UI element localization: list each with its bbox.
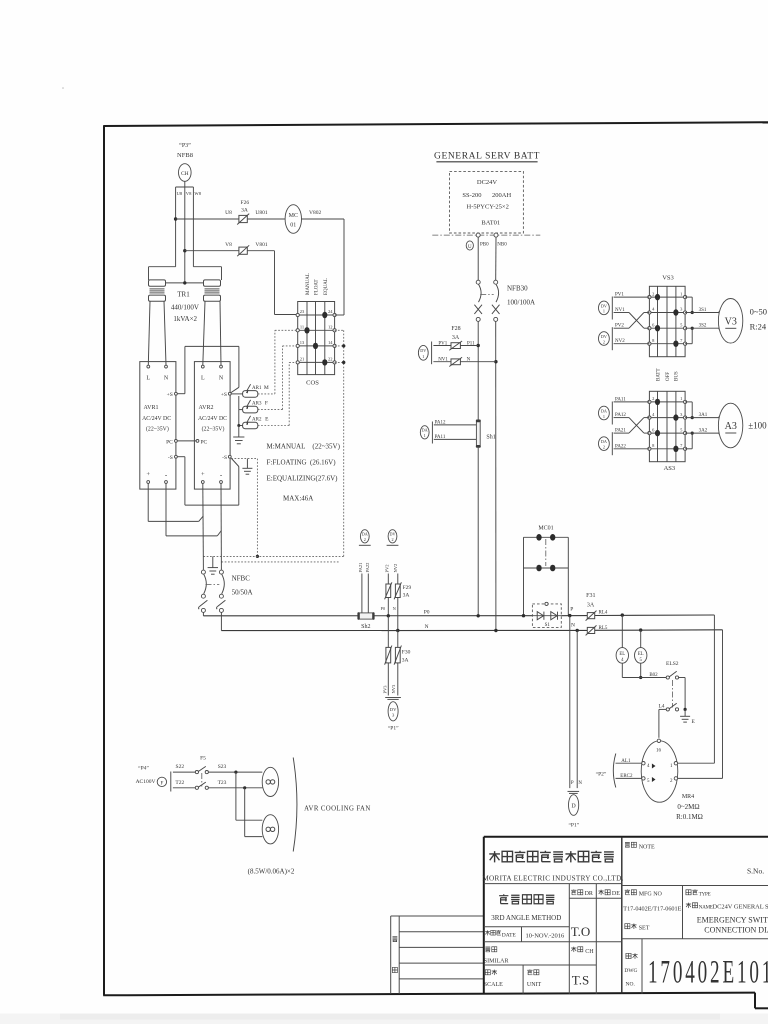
cell TYPE <box>686 889 711 897</box>
svg-text:2: 2 <box>603 444 605 449</box>
battery BAT01 box <box>450 171 524 233</box>
svg-text:2: 2 <box>603 339 605 344</box>
svg-text:DA: DA <box>601 439 607 444</box>
svg-text:ELS2: ELS2 <box>666 661 679 667</box>
svg-text:F26: F26 <box>241 200 250 206</box>
cell DE <box>598 890 620 898</box>
svg-text:L4: L4 <box>658 704 664 710</box>
svg-text:BUS: BUS <box>675 371 680 381</box>
marker D "P1" <box>568 795 579 829</box>
svg-text:N: N <box>219 376 224 382</box>
fuse F28 <box>449 326 462 367</box>
svg-text:DA: DA <box>422 428 428 433</box>
svg-text:DR: DR <box>585 891 593 897</box>
svg-text:RL4: RL4 <box>599 611 608 616</box>
battery bus dash-dot line <box>432 234 540 236</box>
svg-text:NV3: NV3 <box>391 684 396 693</box>
wire V802 to COS 24 <box>302 219 345 315</box>
svg-text:NAME: NAME <box>699 905 713 910</box>
node N junction <box>494 360 497 363</box>
svg-text:U: U <box>468 245 472 250</box>
marker DV2 at F29 <box>387 530 399 546</box>
revision table <box>391 916 484 994</box>
svg-text:“P2”: “P2” <box>596 771 607 778</box>
svg-text:NO.: NO. <box>626 982 636 988</box>
svg-text:+: + <box>146 471 150 478</box>
ground at -S run <box>242 459 252 475</box>
wire PA21 PA22 to Sh2 <box>358 563 370 613</box>
svg-text:AVR2: AVR2 <box>199 405 214 411</box>
wire COS 14 <box>335 344 346 347</box>
wire S22 <box>173 764 196 772</box>
plug link AR2 (E) <box>237 410 269 429</box>
contactor coil MC01 <box>285 205 321 234</box>
svg-text:U801: U801 <box>255 210 267 216</box>
wire PV1 to VS3 <box>614 293 650 298</box>
svg-text:V8: V8 <box>225 242 232 248</box>
megohm meter MR4 <box>641 739 678 802</box>
third angle method kanji <box>499 894 554 904</box>
svg-text:E: E <box>265 417 269 423</box>
wire AS3 out 3A1 <box>685 402 722 419</box>
svg-text:SIMILAR: SIMILAR <box>484 958 509 964</box>
wire P drop to D <box>568 616 583 794</box>
svg-text:H-5PYCY-25×2: H-5PYCY-25×2 <box>467 204 509 211</box>
svg-text:3A: 3A <box>402 658 409 664</box>
wire V8 drop <box>184 187 186 283</box>
wire battery to NFB30 <box>478 237 496 280</box>
label MR4 values <box>676 794 703 821</box>
svg-text:S.No.: S.No. <box>747 866 764 875</box>
svg-text:3A: 3A <box>452 335 460 341</box>
lamp EL4 <box>616 615 628 677</box>
svg-text:Sh2: Sh2 <box>361 624 370 630</box>
svg-text:1kVA×2: 1kVA×2 <box>173 315 197 323</box>
cell DR <box>571 889 593 897</box>
marker DA1 at AS3 <box>599 402 613 425</box>
svg-text:EQUAL: EQUAL <box>324 278 329 295</box>
fuse F29 <box>385 582 412 599</box>
svg-text:±100: ±100 <box>748 421 767 431</box>
svg-text:2: 2 <box>652 291 654 296</box>
wire U8 branch to MC coil <box>176 210 286 219</box>
svg-text:L: L <box>201 376 205 382</box>
svg-text:SCALE: SCALE <box>484 982 503 988</box>
svg-text:M:MANUAL (22~35V): M:MANUAL (22~35V) <box>267 442 341 450</box>
wire branch to fan 2 <box>236 772 263 837</box>
wire W8 drop <box>192 187 194 267</box>
wire MR4 pin1 to P <box>678 615 715 763</box>
svg-text:F29: F29 <box>403 585 412 591</box>
regulator AVR1 <box>140 362 178 490</box>
svg-text:DA: DA <box>362 532 368 537</box>
svg-text:SS-200: SS-200 <box>462 192 481 199</box>
svg-text:170402E101: 170402E101 <box>648 953 768 990</box>
wire PA12 crossing <box>614 413 650 433</box>
svg-text:COS: COS <box>306 380 319 387</box>
svg-text:DATE: DATE <box>502 932 517 938</box>
svg-text:U8: U8 <box>177 191 183 196</box>
label name value <box>697 915 768 934</box>
svg-text:BAT01: BAT01 <box>481 220 500 227</box>
svg-text:50/50A: 50/50A <box>232 589 253 597</box>
svg-text:+S: +S <box>167 392 173 398</box>
cell NOTE <box>625 842 655 850</box>
terminal NB0 <box>494 233 507 247</box>
svg-text:DV: DV <box>389 532 395 537</box>
switch F5 <box>195 756 208 790</box>
svg-text:(22~35V): (22~35V) <box>202 426 225 433</box>
marker DV1 at VS3 <box>599 297 613 320</box>
node U8 junction <box>174 217 177 220</box>
svg-text:F: F <box>161 781 164 786</box>
svg-text:4: 4 <box>652 307 655 312</box>
svg-text:13: 13 <box>300 340 305 345</box>
wire M to COS 11 <box>258 330 298 394</box>
svg-text:AC/24V DC: AC/24V DC <box>142 416 171 422</box>
node N drop tap <box>576 629 579 632</box>
svg-text:4: 4 <box>652 412 655 417</box>
svg-text:M: M <box>264 385 269 391</box>
svg-text:V3: V3 <box>725 317 737 328</box>
svg-text:AC/24V DC: AC/24V DC <box>198 416 227 422</box>
cell UNIT <box>527 969 542 987</box>
svg-text:16: 16 <box>656 749 662 754</box>
wire S23 <box>208 764 262 774</box>
svg-text:DV: DV <box>601 334 607 339</box>
svg-text:N: N <box>164 376 169 382</box>
contactor contacts MC01 <box>522 526 569 618</box>
svg-text:-S: -S <box>168 455 173 461</box>
wire PC link <box>177 440 196 442</box>
svg-text:MFG NO: MFG NO <box>639 891 663 897</box>
svg-text:V801: V801 <box>255 242 267 248</box>
wire P0 bus <box>203 610 714 616</box>
svg-text:5: 5 <box>680 322 683 327</box>
svg-text:S22: S22 <box>176 764 185 770</box>
cell SCALE <box>484 970 503 988</box>
node V8 junction <box>183 249 186 252</box>
wire COS 22 <box>335 361 346 364</box>
svg-text:“P4”: “P4” <box>138 765 149 772</box>
wire F29 to buses <box>381 598 400 633</box>
shunt Sh2 <box>357 612 374 630</box>
svg-text:F5: F5 <box>200 756 206 762</box>
wire P after S1 <box>568 607 573 618</box>
svg-text:23: 23 <box>300 309 305 314</box>
switch ELS2 <box>666 661 685 709</box>
svg-text:PV2: PV2 <box>385 564 390 572</box>
svg-text:DV: DV <box>420 348 426 353</box>
svg-text:“P1”: “P1” <box>568 822 579 829</box>
svg-text:PC: PC <box>201 439 208 445</box>
svg-text:F30: F30 <box>402 650 411 656</box>
svg-text:2: 2 <box>652 396 654 401</box>
wire COS 12 common dashed <box>335 330 344 556</box>
note text charge modes <box>267 442 341 502</box>
svg-text:21: 21 <box>300 356 305 361</box>
svg-text:N: N <box>425 624 429 630</box>
svg-text:MR4: MR4 <box>682 794 694 800</box>
svg-text:CH: CH <box>181 171 189 177</box>
svg-text:T22: T22 <box>175 780 184 786</box>
svg-text:1: 1 <box>422 354 424 359</box>
wire TR1 secondary to AVR1 <box>148 301 166 365</box>
svg-text:N: N <box>578 781 582 786</box>
svg-text:AVR1: AVR1 <box>144 405 159 411</box>
svg-text:3: 3 <box>680 412 683 417</box>
svg-text:DC24V GENERAL SERV: DC24V GENERAL SERV <box>713 904 768 911</box>
svg-text:P0: P0 <box>424 610 430 616</box>
svg-text:DC24V: DC24V <box>477 179 498 186</box>
marker U <box>466 241 473 250</box>
svg-text:P0: P0 <box>381 606 385 611</box>
marker DV3 "P1" <box>388 702 399 732</box>
svg-text:SET: SET <box>639 925 650 931</box>
fuse F31 / RL4 <box>586 593 608 621</box>
wire ERC2 <box>616 774 642 779</box>
wire AVR2 + output <box>202 483 205 569</box>
wire AVR1 + output <box>148 483 203 521</box>
wire PV1 / P11 <box>433 341 478 346</box>
svg-text:DV: DV <box>601 303 607 308</box>
fuse F30 <box>385 616 411 665</box>
svg-text:UNIT: UNIT <box>527 982 542 988</box>
svg-text:DWG: DWG <box>624 968 637 974</box>
svg-text:N: N <box>571 623 575 629</box>
selector switch AS3 <box>648 391 687 472</box>
wire PV2 NV2 down <box>385 564 398 584</box>
svg-text:E:EQUALIZING(27.6V): E:EQUALIZING(27.6V) <box>267 475 339 483</box>
breaker NFB8 feed "P3" <box>176 142 202 196</box>
svg-text:PV3: PV3 <box>382 685 387 694</box>
wire NV2 to VS3 <box>614 339 650 344</box>
cell SIMILAR <box>484 947 509 965</box>
wire V8 branch <box>185 242 275 251</box>
breaker NFB30 <box>474 280 535 321</box>
cell NAME <box>686 903 713 911</box>
svg-text:DE: DE <box>612 891 620 897</box>
svg-text:01: 01 <box>290 223 296 229</box>
cell DWG NO <box>624 953 637 987</box>
svg-text:2: 2 <box>391 537 393 542</box>
wire AVR2 -S dashed run to COS common <box>231 459 259 558</box>
svg-text:-: - <box>220 471 223 479</box>
svg-text:7: 7 <box>680 338 683 343</box>
svg-text:EL: EL <box>619 652 625 657</box>
svg-text:2: 2 <box>364 537 366 542</box>
svg-text:AS3: AS3 <box>664 465 676 472</box>
svg-text:DA: DA <box>601 408 607 413</box>
wire TR1 secondary to AVR2 <box>203 301 221 365</box>
marker F <box>157 772 171 792</box>
svg-text:GENERAL SERV BATT: GENERAL SERV BATT <box>434 152 540 162</box>
ammeter A3 <box>718 403 767 448</box>
ground at plug bus <box>233 426 244 444</box>
wire P11 down to P0 bus <box>477 447 479 616</box>
label "P4" AC100V source <box>136 765 156 786</box>
speck top-left <box>62 87 64 89</box>
svg-text:8: 8 <box>652 338 655 343</box>
svg-text:24: 24 <box>328 309 333 314</box>
svg-text:AR3: AR3 <box>252 402 262 407</box>
wire T23 <box>208 780 262 790</box>
wire PA12 <box>434 420 477 425</box>
svg-text:U8: U8 <box>225 210 232 216</box>
fuse RL5 <box>571 623 608 636</box>
wire AVR1 -S sense <box>177 457 239 505</box>
marker DV2 at VS3 <box>599 327 613 350</box>
svg-text:V8: V8 <box>186 191 192 196</box>
wire PA11 <box>434 435 477 440</box>
node EL5 tap <box>639 628 642 631</box>
marker DA1 <box>420 422 432 444</box>
title block frame <box>484 837 768 994</box>
svg-text:PA22: PA22 <box>365 563 370 573</box>
svg-text:NFBC: NFBC <box>232 575 251 583</box>
svg-text:AR1: AR1 <box>252 386 262 391</box>
svg-text:+: + <box>201 471 205 478</box>
svg-text:1: 1 <box>680 396 682 401</box>
wire PV2 crossing <box>614 313 650 329</box>
svg-text:S1: S1 <box>545 623 551 628</box>
company name kanji <box>489 851 614 863</box>
marker DV1 <box>418 342 431 365</box>
svg-text:1: 1 <box>603 414 605 419</box>
svg-text:14: 14 <box>328 340 333 345</box>
svg-text:3A: 3A <box>241 207 248 213</box>
svg-text:5: 5 <box>680 427 683 432</box>
wire AVR1 - output <box>166 483 221 536</box>
svg-text:Sh1: Sh1 <box>486 434 495 440</box>
wire AVR2 - output <box>220 483 222 569</box>
svg-text:EL: EL <box>638 652 644 657</box>
transformer TR1 <box>149 267 222 323</box>
svg-text:+S: +S <box>221 392 227 398</box>
svg-text:AVR COOLING FAN: AVR COOLING FAN <box>304 806 371 813</box>
svg-text:“P1”: “P1” <box>388 725 399 732</box>
svg-text:MANUAL: MANUAL <box>306 273 311 295</box>
svg-text:1: 1 <box>680 291 682 296</box>
svg-text:7: 7 <box>680 443 683 448</box>
svg-text:NOTE: NOTE <box>639 844 655 850</box>
ground E <box>680 708 695 725</box>
wire PA11 to AS3 <box>614 397 650 402</box>
voltmeter V3 <box>718 299 767 344</box>
svg-text:RL5: RL5 <box>599 626 608 631</box>
wire U8 drop <box>175 187 177 267</box>
svg-text:CONNECTION DIAGRA: CONNECTION DIAGRA <box>704 926 768 935</box>
svg-text:PC: PC <box>166 439 173 445</box>
svg-text:NB0: NB0 <box>497 242 507 247</box>
svg-text:12: 12 <box>328 324 333 329</box>
wire PV3 NV3 <box>382 663 401 700</box>
svg-text:VS3: VS3 <box>662 275 674 282</box>
wire AL1 <box>616 759 642 764</box>
linkage ELS2-L4 <box>671 680 673 708</box>
svg-text:L: L <box>146 376 150 382</box>
svg-text:22: 22 <box>328 356 333 361</box>
svg-text:MORITA ELECTRIC INDUSTRY CO.,L: MORITA ELECTRIC INDUSTRY CO.,LTD. <box>482 874 623 882</box>
svg-text:V802: V802 <box>309 210 321 216</box>
svg-text:A3: A3 <box>725 421 737 432</box>
wire AVR1 +S sense <box>177 346 239 393</box>
svg-text:440/100V: 440/100V <box>171 304 199 312</box>
svg-text:PB0: PB0 <box>480 242 489 247</box>
marker DA2 at AS3 <box>599 432 613 455</box>
label AVR COOLING FAN <box>293 758 370 852</box>
svg-text:TR1: TR1 <box>177 291 190 299</box>
svg-text:NFB30: NFB30 <box>507 285 528 293</box>
svg-text:6: 6 <box>652 427 655 432</box>
ground at NFBC <box>208 556 218 574</box>
wire VS3 out 3S2 <box>685 324 722 344</box>
svg-text:T23: T23 <box>218 780 227 786</box>
svg-text:6: 6 <box>652 322 655 327</box>
svg-text:P: P <box>570 607 573 613</box>
node P11 junction <box>477 344 480 347</box>
svg-text:B02: B02 <box>649 673 658 678</box>
cell SET <box>625 924 650 932</box>
fan motor 1 <box>262 767 278 796</box>
svg-text:11: 11 <box>300 324 304 329</box>
svg-text:3A: 3A <box>403 593 410 599</box>
wire MR4 pin2 to N <box>678 630 723 779</box>
svg-text:AR2: AR2 <box>252 417 262 422</box>
svg-text:EMERGENCY SWITCHB: EMERGENCY SWITCHB <box>697 915 768 924</box>
svg-text:T.O: T.O <box>571 924 591 939</box>
svg-text:“P3”: “P3” <box>179 142 191 149</box>
svg-text:N: N <box>393 606 396 611</box>
wire E to COS 21 <box>258 362 298 425</box>
svg-text:D: D <box>571 804 576 810</box>
wire NV1 / N <box>433 358 496 363</box>
svg-text:3: 3 <box>680 307 683 312</box>
wire PA22 to AS3 <box>614 444 650 449</box>
wire AS3 out 3A2 <box>685 428 722 448</box>
battery title GENERAL SERV BATT <box>434 152 540 162</box>
switch L4 <box>658 703 678 738</box>
wire T22 <box>173 780 196 788</box>
svg-text:3RD ANGLE METHOD: 3RD ANGLE METHOD <box>491 914 561 922</box>
fuse V8 line <box>237 245 249 256</box>
svg-text:FLOAT: FLOAT <box>314 279 319 295</box>
wire PA21 crossing <box>614 418 650 434</box>
svg-text:-S: -S <box>222 455 227 461</box>
svg-text:E: E <box>692 719 696 725</box>
svg-text:F31: F31 <box>586 593 595 599</box>
svg-text:CH: CH <box>585 949 594 955</box>
cell MFG NO <box>623 889 681 912</box>
regulator AVR2 <box>194 362 231 490</box>
svg-text:DV: DV <box>390 707 397 712</box>
plug link AR1 (M) <box>231 384 269 397</box>
svg-text:0~50: 0~50 <box>750 307 767 317</box>
svg-text:T.S: T.S <box>572 973 589 988</box>
svg-text:-: - <box>165 471 168 479</box>
wire B02 <box>622 673 666 678</box>
svg-text:200AH: 200AH <box>492 192 511 199</box>
svg-text:AC100V: AC100V <box>136 779 156 785</box>
diode block S1 <box>532 602 561 628</box>
svg-text:3A: 3A <box>587 603 595 609</box>
wire NV1 crossing <box>614 308 650 328</box>
selector switch VS3 <box>648 275 687 357</box>
svg-text:100/100A: 100/100A <box>507 299 535 307</box>
svg-text:W8: W8 <box>194 191 201 196</box>
svg-text:TYPE: TYPE <box>699 892 711 897</box>
label "P2" bracket <box>596 754 616 788</box>
